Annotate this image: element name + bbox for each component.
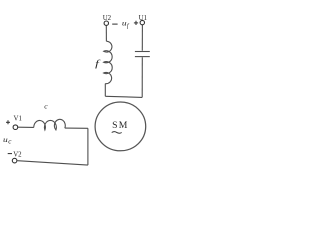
- svg-text:V2: V2: [13, 151, 22, 158]
- svg-text:u: u: [3, 135, 8, 144]
- svg-text:U2: U2: [103, 15, 112, 22]
- svg-text:U1: U1: [139, 15, 148, 22]
- svg-text:V1: V1: [14, 116, 23, 123]
- svg-text:SM: SM: [112, 120, 129, 131]
